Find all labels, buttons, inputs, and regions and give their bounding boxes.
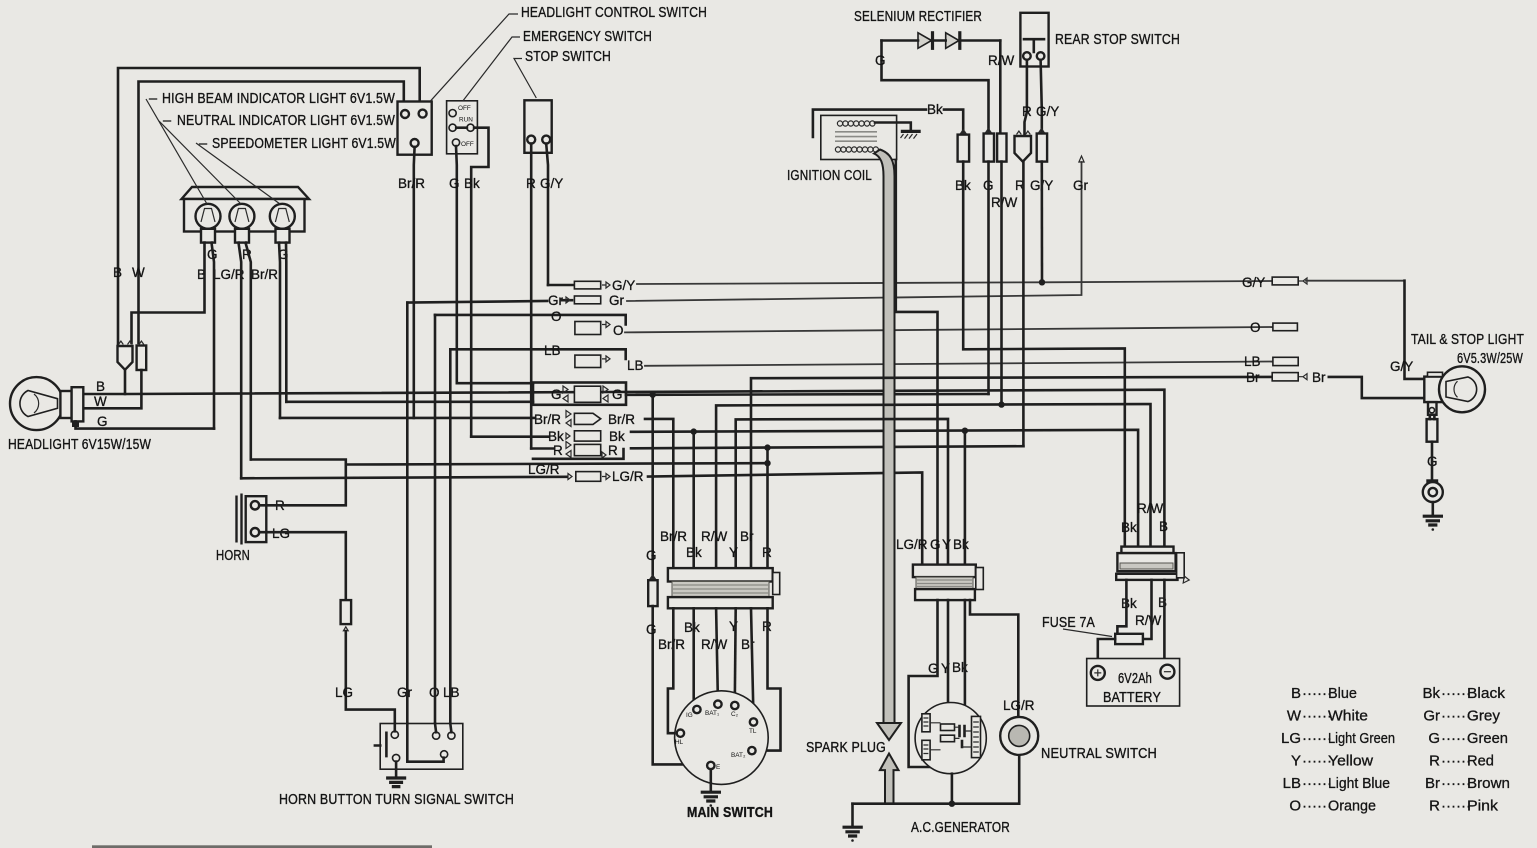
- callout headlight control switch: [430, 14, 518, 101]
- svg-text:Brown: Brown: [1467, 775, 1510, 792]
- wire Bk main switch drop: [692, 432, 695, 568]
- generator body: [915, 703, 986, 774]
- svg-text:HORN BUTTON TURN SIGNAL SWITCH: HORN BUTTON TURN SIGNAL SWITCH: [279, 792, 514, 808]
- svg-text:R: R: [1429, 753, 1440, 770]
- battery plus terminal: [1091, 666, 1105, 680]
- svg-text:BAT₁: BAT₁: [705, 710, 719, 717]
- R row wrap: [533, 449, 624, 459]
- wire Bk from emergency switch: [471, 128, 488, 437]
- connector bullet G: [984, 134, 994, 162]
- svg-text:–: –: [199, 136, 208, 152]
- svg-text:LB: LB: [544, 343, 561, 358]
- battery minus terminal: [1160, 665, 1174, 679]
- wire run link: [456, 126, 467, 129]
- wire R/W bullet down: [1000, 162, 1003, 405]
- wire G/Y bus: [637, 281, 1272, 284]
- svg-text:G: G: [612, 387, 623, 402]
- wire W connector to headlight: [83, 370, 141, 408]
- wire R speedo to horn junction: [251, 460, 768, 465]
- svg-text:LB: LB: [1244, 354, 1261, 369]
- speedometer housing lid: [182, 187, 310, 199]
- svg-text:Gr: Gr: [1423, 708, 1440, 725]
- socket bulb 1: [201, 229, 215, 243]
- wire R rear stop: [1025, 60, 1027, 134]
- terminal C2: [731, 702, 738, 709]
- svg-text:O: O: [613, 323, 624, 338]
- svg-text:TAIL & STOP LIGHT: TAIL & STOP LIGHT: [1411, 332, 1524, 348]
- svg-text:Gr: Gr: [609, 293, 625, 308]
- wire G main switch drop: [651, 395, 654, 578]
- svg-text:Yellow: Yellow: [1328, 753, 1373, 770]
- wire Br/R row left: [280, 417, 534, 420]
- pin run right: [467, 124, 474, 131]
- wire generator to ground bus: [951, 774, 954, 804]
- svg-text:TL: TL: [749, 728, 757, 735]
- svg-text:Br/R: Br/R: [534, 412, 561, 427]
- svg-text:Bk: Bk: [927, 102, 943, 117]
- svg-text:R: R: [526, 176, 536, 191]
- wire R from stop switch: [530, 144, 533, 449]
- svg-text:OFF: OFF: [461, 141, 474, 148]
- generator connector upper: [913, 565, 976, 578]
- connector bullet R/W: [997, 134, 1006, 162]
- switch pin LG: [391, 731, 398, 738]
- svg-text:–: –: [149, 91, 158, 107]
- switch pin LB: [448, 732, 455, 739]
- connector Gr row: [574, 296, 600, 304]
- socket bulb 2: [235, 229, 249, 243]
- wire G tail: [1431, 442, 1434, 483]
- svg-text:Br: Br: [1312, 370, 1326, 385]
- bulb speedometer light: [270, 204, 295, 229]
- generator connector lower: [915, 589, 975, 600]
- connector G/Y row: [574, 281, 600, 289]
- svg-text:G: G: [97, 414, 108, 429]
- svg-text:Bk: Bk: [609, 429, 625, 444]
- svg-text:A.C.GENERATOR: A.C.GENERATOR: [911, 820, 1010, 836]
- callout line speedometer bulb: [196, 143, 280, 204]
- svg-text:SPARK PLUG: SPARK PLUG: [806, 740, 886, 756]
- wire B long bus to rectifier: [125, 390, 1164, 548]
- ground main switch: [709, 769, 712, 792]
- wire Br to TL terminal: [751, 608, 754, 718]
- wire G/Y bullet to bus: [1041, 162, 1044, 283]
- svg-text:O: O: [1289, 798, 1301, 815]
- wire R to BAT2 terminal: [756, 608, 781, 750]
- svg-text:R: R: [1429, 798, 1440, 815]
- wire R bus: [631, 446, 1023, 448]
- wire Br to tail light: [1329, 377, 1425, 398]
- svg-text:B: B: [1159, 519, 1168, 534]
- generator points: [960, 726, 965, 747]
- pin left top: [401, 110, 409, 118]
- svg-text:HL: HL: [675, 739, 684, 746]
- junction Bk main switch: [691, 428, 697, 434]
- svg-text:STOP SWITCH: STOP SWITCH: [525, 49, 611, 65]
- wire Bk coil feed to rectifier: [963, 162, 1125, 548]
- neutral switch body: [1000, 717, 1038, 755]
- wire G to E terminal: [653, 606, 707, 764]
- svg-text:R/W: R/W: [991, 195, 1018, 210]
- svg-text:Br: Br: [740, 529, 754, 544]
- wire coil primary left: [813, 110, 926, 137]
- wire G selenium: [882, 41, 989, 132]
- svg-text:B: B: [113, 265, 122, 280]
- spark cable arrowhead: [877, 723, 901, 740]
- connector Br right: [1272, 373, 1298, 381]
- fuse 7A: [1115, 634, 1143, 644]
- svg-text:OFF: OFF: [458, 105, 471, 112]
- svg-text:R/W: R/W: [1135, 613, 1162, 628]
- svg-text:6V5.3W/25W: 6V5.3W/25W: [1457, 351, 1523, 367]
- wire Br/R from control switch: [412, 147, 415, 418]
- horn push button lever: [375, 733, 387, 756]
- main harness connector lower: [668, 597, 773, 608]
- wire gen Bk lead: [964, 600, 967, 712]
- tail light socket: [1424, 377, 1446, 403]
- svg-text:IG: IG: [686, 712, 693, 719]
- wire LB bus: [645, 362, 1273, 366]
- wire G from emergency switch: [455, 146, 458, 383]
- headlight control switch body: [398, 102, 432, 155]
- wire LB inside switch: [450, 724, 451, 733]
- junction G/Y: [1039, 279, 1045, 285]
- spark plug electrode arrow: [880, 754, 899, 804]
- svg-text:Br/R: Br/R: [251, 267, 278, 282]
- switch pin O: [433, 732, 440, 739]
- svg-text:LG: LG: [1281, 730, 1301, 747]
- wire LB vertical: [449, 349, 452, 732]
- callout stop switch: [514, 59, 536, 99]
- legend column 2: [1422, 685, 1510, 815]
- terminal TL: [750, 718, 757, 725]
- pin run: [449, 124, 456, 131]
- svg-text:O: O: [1250, 320, 1261, 335]
- ring terminal: [1428, 481, 1438, 487]
- svg-text:G/Y: G/Y: [612, 278, 635, 293]
- svg-text:Y: Y: [942, 537, 951, 552]
- junction G bus: [650, 392, 656, 398]
- wire R/W selenium: [999, 41, 1002, 132]
- callout line neutral bulb: [159, 121, 241, 204]
- svg-text:MAIN SWITCH: MAIN SWITCH: [687, 805, 773, 821]
- svg-text:W: W: [132, 265, 145, 280]
- junction Bk generator: [962, 428, 968, 434]
- svg-text:G/Y: G/Y: [1390, 359, 1413, 374]
- ground spark area: [851, 804, 854, 827]
- svg-text:G/Y: G/Y: [540, 176, 563, 191]
- wire LG/R speedo row: [241, 477, 567, 479]
- ground turn signal switch: [395, 762, 398, 778]
- svg-text:R: R: [608, 443, 618, 458]
- svg-text:G: G: [449, 176, 460, 191]
- pin bottom: [411, 139, 419, 147]
- junction R: [764, 460, 770, 466]
- connector Br/R row bullet: [574, 413, 600, 424]
- wire Bk emergency to Bk row: [471, 435, 548, 438]
- wire Y to C2 terminal: [733, 608, 737, 702]
- svg-text:BAT₂: BAT₂: [731, 752, 746, 759]
- wire G/Y row left: [548, 284, 574, 287]
- wire G headlight ground lead: [76, 421, 215, 428]
- legend column 1: [1281, 685, 1395, 815]
- svg-text:B: B: [96, 379, 105, 394]
- generator coil left 1: [922, 714, 930, 732]
- wire LG/R bus to generator: [648, 473, 922, 565]
- svg-text:Pink: Pink: [1467, 798, 1499, 815]
- horn button turn signal switch body: [380, 724, 463, 770]
- svg-text:C₂: C₂: [731, 711, 739, 718]
- wire LG to turn signal switch: [346, 631, 395, 731]
- connector G/Y right: [1272, 277, 1298, 285]
- connector male B above headlight: [118, 346, 133, 370]
- wire LB row left: [450, 349, 625, 359]
- battery body: [1087, 659, 1180, 707]
- coil ground wire: [875, 123, 911, 131]
- coil core: [835, 132, 877, 141]
- svg-text:Y: Y: [1291, 753, 1301, 770]
- terminal BAT1: [714, 701, 721, 708]
- headlight shell: [10, 377, 63, 430]
- terminal IG: [693, 706, 700, 713]
- wire W top frame: [139, 82, 404, 344]
- svg-text:LG/R: LG/R: [896, 537, 928, 552]
- wire LG inside switch: [393, 724, 396, 732]
- svg-text:LG: LG: [335, 685, 353, 700]
- svg-text:Gr: Gr: [1073, 178, 1089, 193]
- generator coil left 2: [922, 740, 930, 760]
- svg-text:R/W: R/W: [701, 529, 728, 544]
- svg-text:LG/R: LG/R: [528, 462, 560, 477]
- rear stop switch body: [1020, 13, 1048, 67]
- svg-text:Bk: Bk: [1121, 596, 1137, 611]
- connector LB row: [575, 355, 601, 367]
- svg-text:Y: Y: [729, 545, 738, 560]
- svg-text:SELENIUM RECTIFIER: SELENIUM RECTIFIER: [854, 9, 982, 25]
- svg-text:W: W: [1287, 708, 1302, 725]
- wire R/W rectifier to fuse: [1143, 580, 1152, 639]
- horn terminal LG: [251, 528, 259, 536]
- svg-text:R: R: [1022, 104, 1032, 119]
- generator condenser: [941, 724, 955, 731]
- wire Gr vertical: [407, 303, 443, 762]
- connector LB right: [1273, 357, 1298, 365]
- wire LG horn: [259, 532, 346, 600]
- wire G speedo to G row: [286, 400, 533, 403]
- svg-text:HEADLIGHT CONTROL SWITCH: HEADLIGHT CONTROL SWITCH: [521, 5, 707, 21]
- connector male R: [1015, 136, 1032, 162]
- svg-text:Orange: Orange: [1328, 798, 1376, 815]
- switch pin battery: [441, 751, 448, 758]
- headlight bulb reflector: [20, 391, 58, 417]
- wire Bk to IG terminal: [692, 608, 695, 706]
- svg-text:R: R: [553, 443, 563, 458]
- main switch body: [675, 691, 769, 785]
- svg-text:Bk: Bk: [1121, 520, 1137, 535]
- emergency switch body: [447, 101, 478, 154]
- wire R male to R bus: [1022, 162, 1025, 447]
- svg-text:G/Y: G/Y: [1242, 275, 1265, 290]
- socket bulb 3: [276, 229, 290, 243]
- wire Bk coil to connector: [944, 110, 963, 133]
- svg-text:R/W: R/W: [701, 637, 728, 652]
- wire B rectifier to battery: [1164, 580, 1167, 665]
- wire Br bus: [751, 377, 1272, 568]
- connector O right: [1273, 323, 1298, 331]
- tail light hinge: [1428, 402, 1437, 415]
- wire R stop to R row: [531, 447, 553, 450]
- wire B from bulb1 to connector: [132, 243, 205, 343]
- callout line high beam bulb: [146, 99, 207, 204]
- terminal E: [707, 762, 714, 769]
- svg-text:G: G: [646, 548, 657, 563]
- svg-text:E: E: [716, 764, 720, 771]
- svg-text:BATTERY: BATTERY: [1103, 690, 1161, 706]
- svg-text:G: G: [646, 622, 657, 637]
- switch pin ground: [393, 754, 400, 761]
- pin stop left: [527, 136, 535, 144]
- wire O inside switch: [435, 724, 436, 733]
- svg-text:EMERGENCY SWITCH: EMERGENCY SWITCH: [523, 29, 652, 45]
- rear stop pin R: [1023, 52, 1031, 60]
- svg-text:Br/R: Br/R: [658, 637, 685, 652]
- svg-text:Bk: Bk: [548, 429, 564, 444]
- stop switch body: [524, 100, 551, 153]
- diode 2: [946, 33, 959, 49]
- svg-text:R/W: R/W: [988, 53, 1015, 68]
- svg-text:Bk: Bk: [684, 620, 700, 635]
- wire G emergency to G row: [457, 382, 533, 385]
- horn body: [246, 496, 267, 542]
- svg-text:Bk: Bk: [953, 537, 969, 552]
- wire fuse to battery plus: [1098, 639, 1115, 663]
- ground bus bottom: [853, 802, 1020, 805]
- svg-text:W: W: [94, 394, 107, 409]
- pin stop right: [542, 136, 550, 144]
- wire Gr row left: [407, 301, 547, 303]
- wire Y line: [736, 419, 948, 568]
- svg-text:RUN: RUN: [459, 117, 473, 124]
- wire to ground tail: [1432, 502, 1435, 516]
- svg-text:SPEEDOMETER LIGHT 6V1.5W: SPEEDOMETER LIGHT 6V1.5W: [212, 136, 396, 152]
- speedometer housing body: [184, 199, 305, 232]
- svg-text:Black: Black: [1467, 685, 1506, 702]
- wire R from bulb2 down: [246, 243, 251, 460]
- wire gen Bk drop: [964, 431, 967, 565]
- ignition coil body: [821, 115, 897, 159]
- connector R row: [574, 444, 600, 455]
- svg-text:G: G: [1428, 730, 1440, 747]
- wire O row left: [435, 315, 626, 325]
- G row wrap box: [533, 383, 626, 405]
- wire gen Y lead: [947, 600, 950, 705]
- horn terminal R: [251, 501, 259, 509]
- wire R horn: [259, 465, 346, 506]
- svg-text:Red: Red: [1467, 753, 1494, 770]
- wire G bus: [626, 393, 989, 396]
- svg-text:G: G: [551, 387, 562, 402]
- svg-text:LB: LB: [1283, 775, 1301, 792]
- svg-text:NEUTRAL INDICATOR LIGHT 6V1.5W: NEUTRAL INDICATOR LIGHT 6V1.5W: [177, 113, 395, 129]
- svg-text:HORN: HORN: [216, 548, 250, 564]
- wire Bk rectifier to battery: [1117, 580, 1126, 637]
- svg-text:HIGH BEAM INDICATOR LIGHT 6V1.: HIGH BEAM INDICATOR LIGHT 6V1.5W: [162, 91, 395, 107]
- wire O bus: [625, 327, 1273, 332]
- svg-text:LG/R: LG/R: [1003, 698, 1035, 713]
- wire R main switch drop: [766, 446, 769, 568]
- wire Br/R to HL terminal: [668, 608, 677, 733]
- spark plug cable: [874, 150, 895, 724]
- wire selenium top: [882, 39, 1001, 42]
- generator coil right: [972, 716, 981, 757]
- bulb neutral indicator: [229, 204, 254, 229]
- bulb high beam indicator: [196, 204, 221, 229]
- tail light bulb: [1439, 366, 1485, 412]
- svg-text:G: G: [875, 53, 886, 68]
- terminal BAT2: [748, 747, 755, 754]
- scan edge artifact bottom: [92, 845, 432, 848]
- svg-text:R/W: R/W: [1137, 501, 1164, 516]
- wire Gr bus: [627, 162, 1082, 301]
- headlight socket: [60, 391, 71, 418]
- rectifier connector assembly: [1121, 547, 1173, 554]
- callout emergency switch: [463, 37, 520, 101]
- svg-text:Br/R: Br/R: [608, 412, 635, 427]
- svg-text:Br/R: Br/R: [398, 176, 425, 191]
- svg-text:LG/R: LG/R: [612, 469, 644, 484]
- svg-text:6V2Ah: 6V2Ah: [1118, 671, 1152, 687]
- svg-text:Light Green: Light Green: [1328, 730, 1395, 747]
- tail light connector: [1427, 419, 1438, 442]
- ground tail: [1424, 516, 1441, 525]
- wire gen G from coil: [896, 160, 938, 565]
- wire G/Y to tail light: [1306, 280, 1405, 282]
- pin off bottom: [452, 139, 459, 146]
- wire Gr inside switch: [407, 724, 443, 762]
- svg-text:NEUTRAL SWITCH: NEUTRAL SWITCH: [1041, 746, 1157, 762]
- wire B connector to headlight: [83, 370, 125, 394]
- svg-text:G: G: [930, 537, 941, 552]
- connector female W above headlight: [137, 346, 147, 371]
- wire Br/R from bulb3 down: [279, 243, 280, 418]
- svg-text:IGNITION COIL: IGNITION COIL: [787, 168, 872, 184]
- svg-text:FUSE 7A: FUSE 7A: [1042, 615, 1095, 631]
- svg-text:Br: Br: [1425, 775, 1440, 792]
- junction R bus: [764, 444, 770, 450]
- pin right top: [419, 110, 427, 118]
- wire LG/R to neutral switch: [970, 600, 1018, 717]
- wire G bullet to G bus: [987, 162, 990, 394]
- svg-text:Br/R: Br/R: [660, 529, 687, 544]
- svg-text:REAR STOP SWITCH: REAR STOP SWITCH: [1055, 32, 1180, 48]
- pin off top: [449, 110, 456, 117]
- svg-text:Bk: Bk: [1422, 685, 1440, 702]
- rear stop pin G/Y: [1037, 52, 1045, 60]
- svg-text:Gr: Gr: [397, 685, 413, 700]
- wire B top frame: [118, 68, 420, 344]
- wire G from bulb1 down: [212, 243, 215, 429]
- wire R/W line to main switch and rectifier: [716, 404, 1150, 568]
- svg-text:Br: Br: [1246, 370, 1260, 385]
- junction R/W: [998, 401, 1004, 407]
- connector LG inline: [341, 600, 352, 624]
- wire neutral switch down: [1018, 755, 1021, 804]
- connector bullet G/Y: [1037, 134, 1047, 162]
- coil secondary winding: [835, 147, 878, 152]
- svg-text:Light Blue: Light Blue: [1328, 775, 1390, 792]
- wire Br/R row to main switch: [645, 419, 673, 568]
- svg-text:G/Y: G/Y: [1036, 104, 1059, 119]
